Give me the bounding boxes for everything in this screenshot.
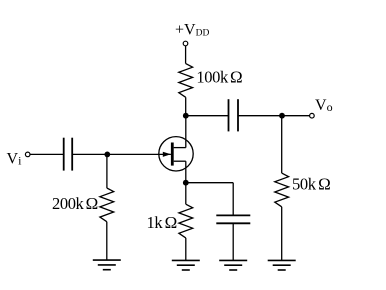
wire C1 to gate node <box>72 153 107 155</box>
svg-text:100kΩ: 100kΩ <box>196 68 242 87</box>
ground G4 <box>219 260 247 270</box>
svg-text:+VDD: +VDD <box>175 22 209 39</box>
svg-text:1kΩ: 1kΩ <box>147 213 178 232</box>
ground G3 <box>268 260 296 270</box>
node drain junction <box>183 113 189 119</box>
terminal +VDD <box>183 41 188 46</box>
resistor R4 <box>179 204 193 238</box>
wire gate node to Q1 gate <box>107 153 171 155</box>
svg-text:200kΩ: 200kΩ <box>52 194 98 213</box>
node gate junction <box>104 152 110 158</box>
wire drain node to C2 <box>186 115 229 117</box>
capacitor C2 <box>229 99 239 131</box>
wire source node to C3 branch <box>186 182 233 184</box>
node output junction <box>279 113 285 119</box>
wire output node down to R3 <box>281 116 283 173</box>
svg-text:Vo: Vo <box>315 97 333 114</box>
ground G2 <box>172 260 200 270</box>
wire C3 to ground <box>232 223 234 260</box>
svg-text:Vi: Vi <box>7 150 23 167</box>
node source junction <box>183 180 189 186</box>
wire gate node down to R2 <box>106 154 108 188</box>
resistor R3 <box>275 173 289 207</box>
svg-text:50kΩ: 50kΩ <box>292 175 331 194</box>
wire C2 to output node <box>238 115 282 117</box>
capacitor C3 <box>216 215 250 223</box>
ground G1 <box>93 260 121 270</box>
wire R1 to drain node <box>185 97 187 115</box>
capacitor C1 <box>64 138 72 171</box>
wire down to C3 <box>232 183 234 216</box>
wire source node to R4 <box>185 183 187 205</box>
wire Vi terminal to C1 <box>30 153 64 155</box>
wire R4 to ground <box>185 238 187 261</box>
transistor Q1 <box>159 137 193 171</box>
resistor R2 <box>100 188 114 222</box>
wire R2 to ground <box>106 222 108 260</box>
wire R3 to ground <box>281 207 283 261</box>
wire output node to Vo terminal <box>282 115 310 117</box>
wire Q1 source to source node <box>185 161 187 183</box>
resistor R1 <box>179 64 193 98</box>
terminal Vo <box>310 113 315 118</box>
wire drain node into Q1 drain <box>185 116 187 148</box>
wire VDD terminal to R1 <box>185 46 187 64</box>
terminal Vi <box>25 152 30 157</box>
